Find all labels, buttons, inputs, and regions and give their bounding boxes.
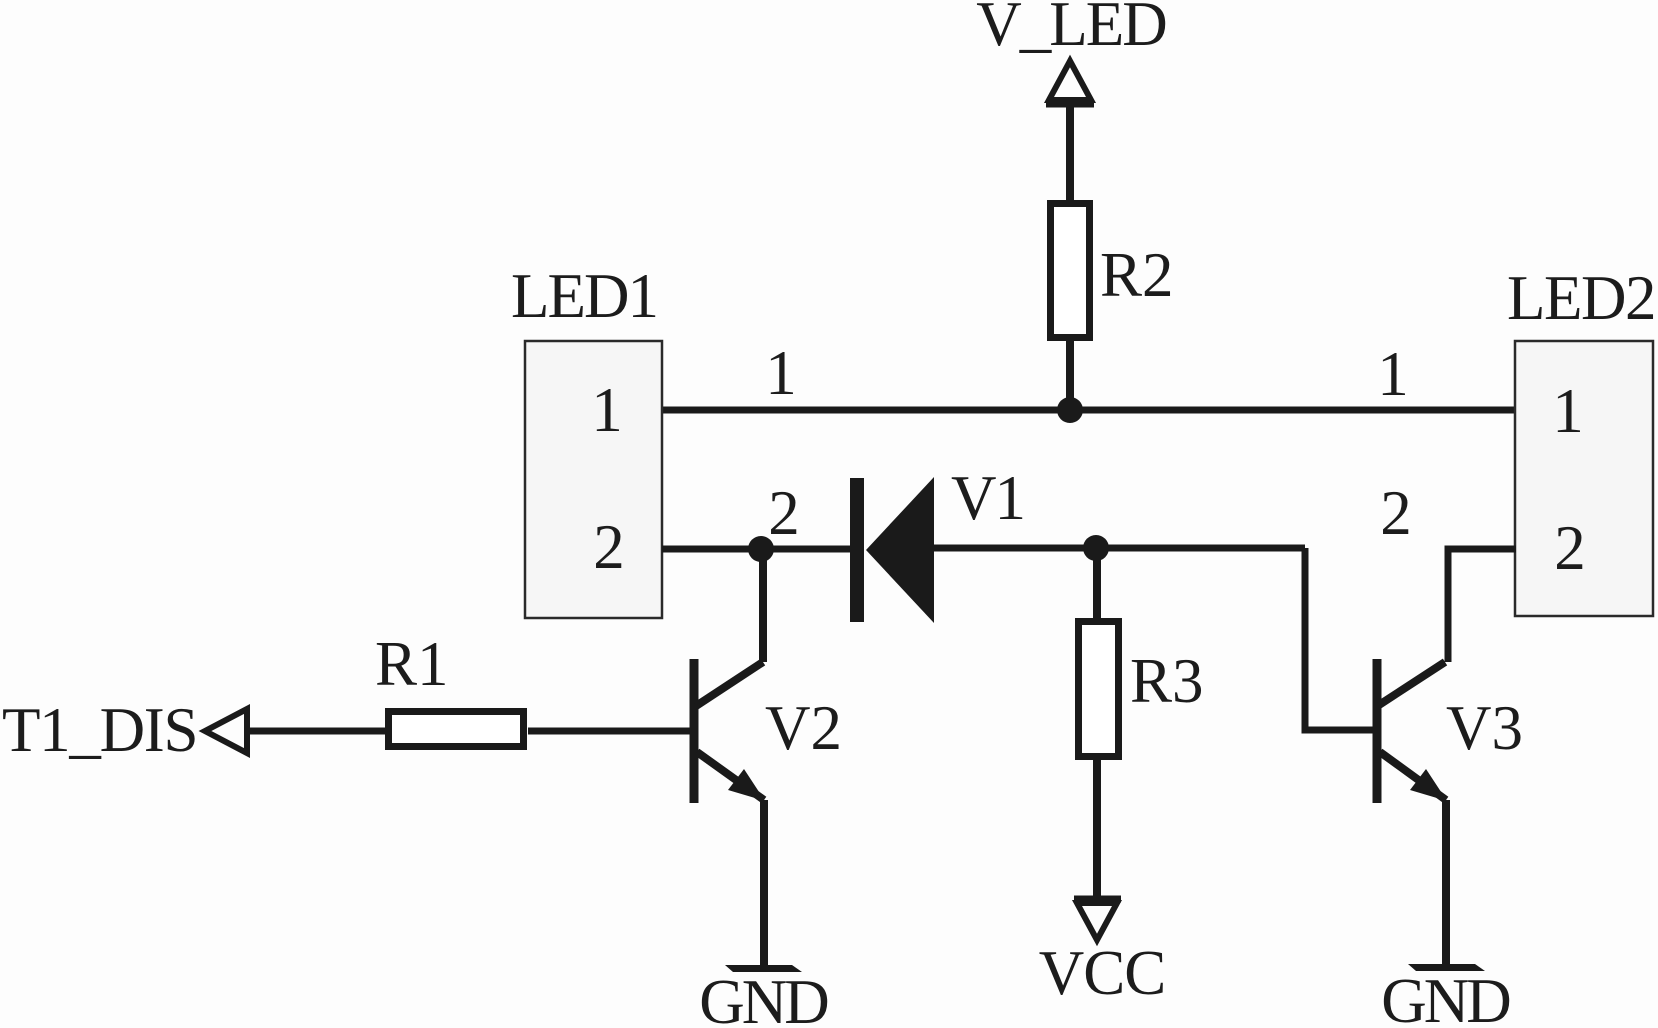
junction on net 1 — [1057, 397, 1083, 423]
svg-text:1: 1 — [765, 338, 797, 408]
transistor V2 — [694, 549, 764, 968]
wire junction to R3 — [1093, 548, 1101, 621]
svg-text:GND: GND — [699, 967, 827, 1028]
svg-text:T1_DIS: T1_DIS — [2, 695, 197, 765]
svg-text:1: 1 — [591, 375, 623, 445]
resistor R3 — [1079, 622, 1119, 757]
connector LED2 — [1515, 341, 1653, 616]
junction at V2 collector — [748, 536, 774, 562]
diode V1 — [850, 477, 934, 623]
wire LED2 pin2 to V3 collector — [1448, 549, 1516, 662]
transistor V3 — [1377, 659, 1446, 966]
svg-text:2: 2 — [768, 478, 800, 548]
wire V1 anode to R3 junction and on to V3 branch — [934, 545, 1305, 552]
wire net 1 (LED1 pin1 to LED2 pin1) — [662, 407, 1516, 414]
svg-text:V3: V3 — [1446, 693, 1523, 763]
wire LED1 pin2 to diode V1 cathode — [662, 546, 852, 553]
svg-text:2: 2 — [1380, 478, 1412, 548]
svg-text:V2: V2 — [765, 693, 842, 763]
svg-text:R1: R1 — [375, 629, 449, 699]
resistor R2 — [1051, 204, 1090, 338]
svg-text:1: 1 — [1377, 339, 1409, 409]
wire R1 to V2 base — [528, 728, 692, 735]
ground bar V3 — [1408, 964, 1485, 971]
svg-text:VCC: VCC — [1039, 938, 1166, 1008]
svg-text:2: 2 — [1554, 513, 1586, 583]
junction at R3 — [1083, 535, 1109, 561]
svg-text:1: 1 — [1552, 376, 1584, 446]
power V_LED arrow symbol — [1046, 61, 1094, 104]
svg-text:LED2: LED2 — [1507, 263, 1655, 333]
svg-text:2: 2 — [593, 512, 625, 582]
wire to V3 base — [1305, 548, 1374, 730]
wire arrow to R1 — [247, 728, 387, 735]
resistor R1 — [389, 712, 524, 747]
svg-text:LED1: LED1 — [511, 261, 657, 331]
wire R2 to net1 — [1066, 341, 1074, 412]
power VCC arrow symbol — [1074, 899, 1121, 940]
connector LED1 — [525, 341, 662, 618]
emitter arrowhead V2 — [728, 769, 765, 801]
svg-text:V_LED: V_LED — [976, 0, 1165, 59]
svg-text:R2: R2 — [1100, 240, 1174, 310]
svg-text:GND: GND — [1381, 966, 1509, 1028]
wire V_LED to R2 — [1066, 106, 1074, 202]
emitter arrowhead V3 — [1410, 769, 1447, 801]
wire R3 to VCC — [1093, 760, 1101, 898]
ground bar V2 — [725, 965, 802, 972]
svg-text:R3: R3 — [1130, 646, 1204, 716]
port arrow T1_DIS — [205, 709, 247, 753]
svg-text:V1: V1 — [951, 463, 1024, 533]
